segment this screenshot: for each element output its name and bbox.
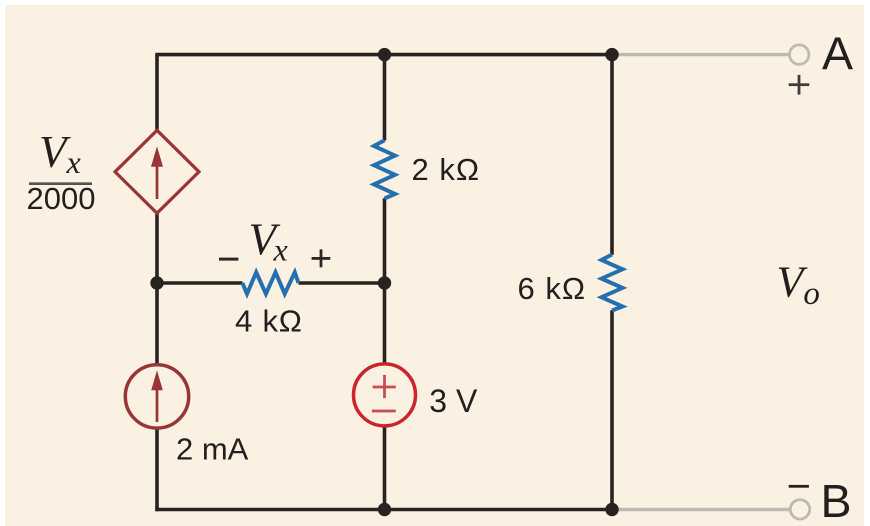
wire: middle horizontal, 4k resistor to middle node xyxy=(299,281,385,285)
minus sign above terminal B xyxy=(789,485,809,488)
svg-text:3 V: 3 V xyxy=(429,383,478,419)
dependent current source Vx/2000 (diamond) xyxy=(115,130,199,213)
node: junction dot top right xyxy=(605,48,618,61)
wire: bottom horizontal bus xyxy=(155,508,612,512)
wire: gray lead from bottom-right node to terminal B xyxy=(612,508,790,511)
wire: middle vertical, top node to 2k resistor xyxy=(383,55,387,141)
svg-text:2000: 2000 xyxy=(27,181,96,216)
label Vx with polarity signs above 4k resistor xyxy=(219,215,330,268)
node: junction dot bottom right xyxy=(605,503,618,516)
wire: middle vertical, 2k resistor to 3V source xyxy=(383,198,387,363)
wire: left vertical, top segment into dependent source xyxy=(155,55,159,132)
terminal B (open circle) xyxy=(790,500,809,519)
node: junction dot left middle xyxy=(150,276,163,289)
svg-text:6 kΩ: 6 kΩ xyxy=(518,271,587,306)
wire: top horizontal bus xyxy=(155,53,612,57)
terminal A (open circle) xyxy=(790,45,809,64)
svg-text:B: B xyxy=(821,475,852,526)
node: junction dot bottom middle xyxy=(378,503,391,516)
svg-text:2 kΩ: 2 kΩ xyxy=(412,152,481,187)
wire: right vertical, 6k resistor to bottom bus xyxy=(610,310,614,509)
current source 2 mA (circle with up arrow) xyxy=(125,365,188,428)
wire: gray lead from node at top-right to terminal A xyxy=(612,53,790,56)
resistor 6k (zigzag) xyxy=(602,255,623,311)
wire: middle vertical, 3V source to bottom bus xyxy=(383,428,387,510)
svg-text:4 kΩ: 4 kΩ xyxy=(235,304,303,339)
voltage source 3V (circle with plus minus) xyxy=(354,364,416,426)
wire: left vertical, dependent source to 2mA source xyxy=(155,212,159,365)
svg-text:2 mA: 2 mA xyxy=(176,431,249,466)
resistor 2k (zigzag) xyxy=(374,140,395,198)
label Vx/2000 xyxy=(27,127,96,216)
node: junction dot middle xyxy=(378,276,391,289)
node: junction dot top middle xyxy=(378,48,391,61)
wire: middle horizontal, left node to 4k resistor xyxy=(157,281,243,285)
resistor 4k (zigzag) xyxy=(242,272,298,294)
plus sign below terminal A xyxy=(789,75,810,95)
wire: left vertical, 2mA source to bottom bus xyxy=(155,429,159,512)
wire: right vertical, top node to 6k resistor xyxy=(610,55,614,255)
svg-text:A: A xyxy=(822,28,853,80)
